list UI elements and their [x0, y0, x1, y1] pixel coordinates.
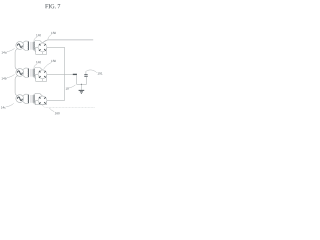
- bridge rectifier BR2: [38, 70, 47, 79]
- diode D11 of BR1: [39, 43, 41, 45]
- bridge rectifier BR3: [38, 96, 47, 105]
- bridge rectifier BR1: [38, 43, 47, 52]
- ground: [80, 84, 82, 90]
- svg-text:14c: 14c: [1, 106, 6, 110]
- wire G1 top to primary top: [23, 41, 29, 43]
- svg-text:14b: 14b: [1, 77, 6, 81]
- svg-text:160: 160: [55, 111, 60, 115]
- AC source G3: [16, 95, 24, 103]
- diode D32 of BR3: [44, 97, 46, 99]
- wire G3 bottom to primary bottom: [23, 102, 29, 104]
- wire secondary T3 top to bridge: [34, 94, 43, 96]
- svg-text:140: 140: [36, 60, 41, 64]
- wire source chain G1-G2: [15, 49, 18, 70]
- label 151 (BR2) leader: [44, 63, 52, 70]
- sine wave inside G2: [17, 71, 22, 74]
- diode D21 of BR2: [39, 70, 41, 72]
- sine wave inside G1: [17, 44, 22, 47]
- transformer T3 secondary coil: [33, 95, 36, 103]
- label 14c (G3) leader: [6, 103, 14, 106]
- transformer T1 core: [31, 42, 32, 50]
- wire bridge BR3 bottom stub: [42, 104, 44, 106]
- wire bottom bus: [43, 105, 96, 108]
- diode D22 of BR2: [44, 71, 46, 73]
- inductor L1 (solid bar element): [73, 73, 77, 75]
- wire bridge BR1 output right: [47, 46, 65, 48]
- AC source G1: [16, 42, 24, 50]
- wire U-link under bridge BR2: [36, 74, 47, 81]
- label 14b (G2) leader: [7, 74, 15, 78]
- wire bridge BR2 bottom stub: [42, 79, 44, 82]
- transformer T3 core: [31, 95, 32, 103]
- wire U-link under bridge BR1: [36, 47, 47, 54]
- wire G2 top to primary top: [23, 68, 29, 70]
- wire output loop: [77, 75, 87, 85]
- transformer T3 primary coil: [27, 95, 30, 103]
- svg-text:150: 150: [51, 59, 56, 63]
- wire secondary T2 bottom: [34, 77, 36, 79]
- transformer T2 core: [31, 69, 32, 77]
- wire secondary T2 top to bridge: [34, 68, 43, 70]
- label 191 (C1) leader: [86, 70, 97, 73]
- wire U-link under bridge BR3: [36, 100, 47, 104]
- transformer T1 secondary coil: [33, 42, 36, 50]
- svg-text:14a: 14a: [1, 51, 6, 55]
- junction node on bottom wire: [81, 84, 82, 85]
- wire top bus from BR1: [43, 40, 94, 43]
- label 140 (T1) leader: [34, 37, 38, 41]
- label 180 (loop) leader: [69, 85, 76, 88]
- wire source chain G2-G3: [15, 76, 18, 96]
- label 150 (BR1) leader: [48, 35, 52, 40]
- svg-text:FIG. 7: FIG. 7: [45, 3, 60, 10]
- diode D23 of BR2: [44, 76, 46, 78]
- wire G1 bottom to primary bottom: [23, 48, 29, 50]
- wire G3 top to primary top: [23, 94, 29, 96]
- diode D14 of BR1: [39, 49, 41, 51]
- diode D31 of BR3: [39, 97, 41, 99]
- sine wave inside G3: [17, 97, 22, 100]
- AC source G2: [16, 69, 24, 77]
- transformer T2 primary coil: [27, 69, 30, 77]
- diode D12 of BR1: [44, 44, 46, 46]
- diode D13 of BR1: [44, 49, 46, 51]
- wire vertical bus: [64, 47, 66, 100]
- wire secondary T3 bottom: [34, 103, 36, 105]
- wire bridge BR3 output right: [47, 99, 65, 101]
- svg-text:140: 140: [36, 33, 41, 37]
- wire secondary T1 top to bridge: [34, 41, 43, 43]
- capacitor C1: [85, 71, 87, 74]
- wire bridge BR2 output right: [47, 73, 74, 75]
- transformer T2 secondary coil: [33, 69, 36, 77]
- label 160 (bottom) leader: [49, 108, 54, 112]
- svg-text:18: 18: [65, 87, 69, 91]
- wire secondary T1 bottom: [34, 50, 36, 52]
- diode D33 of BR3: [44, 102, 46, 104]
- diode D34 of BR3: [39, 102, 41, 104]
- wire bridge BR1 bottom stub: [42, 52, 44, 55]
- wire G2 bottom to primary bottom: [23, 75, 29, 77]
- transformer T1 primary coil: [27, 42, 30, 50]
- label 14a (G1) leader: [7, 48, 15, 52]
- svg-text:150: 150: [51, 31, 56, 35]
- label 141 (T2) leader: [34, 64, 38, 68]
- svg-text:191: 191: [97, 72, 102, 76]
- diode D24 of BR2: [39, 76, 41, 78]
